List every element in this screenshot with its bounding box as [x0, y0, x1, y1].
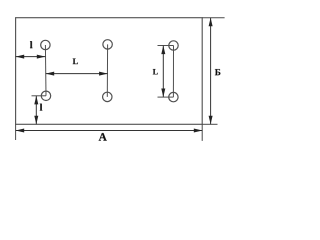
hole bottom-right	[169, 92, 178, 101]
dimension l top-left: line	[16, 56, 46, 58]
dimension L right vertical: label L	[153, 69, 158, 74]
dimension L right vertical: bottom arrow	[161, 89, 165, 98]
center stub top-right hole	[158, 45, 174, 47]
center line column 3 (between right holes)	[172, 46, 174, 98]
dimension L right vertical: top arrow	[161, 46, 165, 55]
center line column 1 (between left holes)	[44, 45, 47, 96]
dimension Б right vertical: line	[210, 18, 212, 125]
dimension A bottom: line	[16, 130, 203, 132]
hole top-right	[169, 41, 178, 50]
center stub bottom-right hole	[158, 96, 174, 98]
dimension A: right arrow	[194, 129, 203, 133]
plate outline (rectangle А×Б)	[16, 18, 203, 125]
dimension Б: label Б	[215, 69, 221, 75]
dimension l bottom-left vertical: bottom arrow	[34, 116, 38, 125]
dimension l bottom-left vertical: label l	[40, 104, 42, 111]
dimension l bottom-left vertical: top arrow	[34, 96, 38, 105]
extension line top edge right (for Б)	[202, 17, 224, 19]
extension line bottom edge right (for Б)	[202, 123, 217, 125]
dimension L top horizontal: left arrow	[46, 72, 55, 76]
dimension l top-left: label l	[30, 41, 32, 48]
center stub bottom-left hole	[32, 95, 47, 97]
hole top-left	[41, 40, 50, 49]
extension line left edge down (for A)	[15, 124, 17, 140]
center line column 2 (between middle holes)	[106, 44, 108, 97]
hole bottom-middle	[103, 92, 112, 101]
dimension A: left arrow	[16, 129, 25, 133]
hole top-middle	[103, 40, 112, 49]
dimension l bottom-left vertical: line	[35, 96, 37, 125]
dimension L top horizontal: right arrow	[99, 72, 108, 76]
dimension l top-left: left arrow	[16, 55, 25, 59]
extension line right edge down (for A)	[201, 124, 203, 141]
dimension L right vertical: line	[162, 46, 164, 98]
hole bottom-left	[41, 91, 50, 100]
dimension Б: top arrow	[209, 18, 213, 27]
dimension L top horizontal: label L	[73, 59, 78, 65]
dimension Б: bottom arrow	[209, 116, 213, 125]
dimension L top horizontal: line	[46, 73, 108, 75]
dimension l top-left: right arrow	[37, 55, 46, 59]
dimension A: label А	[99, 133, 107, 141]
